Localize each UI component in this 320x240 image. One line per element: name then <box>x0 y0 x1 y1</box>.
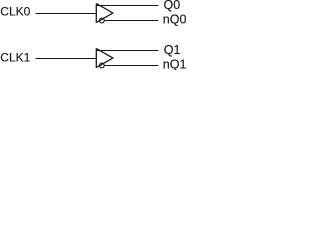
wire nQ1 <box>104 65 158 67</box>
wire CLK0 input <box>36 13 97 15</box>
svg-text:Q1: Q1 <box>164 43 181 57</box>
buffer U1 <box>96 3 113 22</box>
svg-text:Q0: Q0 <box>164 0 181 12</box>
svg-text:nQ0: nQ0 <box>163 13 187 27</box>
wire nQ0 <box>104 20 158 22</box>
inversion bubble U2 <box>99 63 104 68</box>
wire Q1 <box>96 50 158 52</box>
wire CLK1 input <box>36 58 97 60</box>
svg-text:nQ1: nQ1 <box>163 58 187 71</box>
inversion bubble U1 <box>99 18 104 23</box>
wire Q0 <box>96 5 158 7</box>
svg-text:CLK1: CLK1 <box>0 51 30 65</box>
buffer U2 <box>96 48 113 67</box>
svg-text:CLK0: CLK0 <box>0 5 30 19</box>
